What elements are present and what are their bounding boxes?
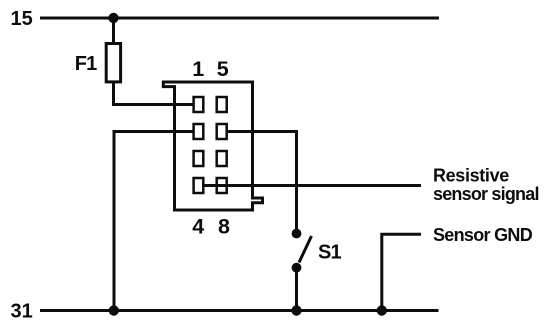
svg-text:Resistive: Resistive	[433, 165, 509, 185]
connector X1 shell outline	[163, 82, 262, 210]
node: junction of 15 rail and fuse branch	[108, 13, 118, 23]
connector pin 2 contact	[194, 124, 204, 139]
svg-text:31: 31	[11, 300, 33, 322]
svg-text:sensor signal: sensor signal	[433, 184, 539, 204]
wire: +15 rail (top)	[40, 17, 439, 20]
svg-text:S1: S1	[318, 242, 342, 264]
switch S1 upper contact	[292, 229, 302, 239]
node: junction 31 rail / S1 branch	[291, 305, 301, 315]
svg-text:5: 5	[217, 57, 229, 81]
connector pin 5 contact	[217, 97, 227, 112]
connector pin 3 contact	[194, 151, 204, 166]
switch S1 lower contact	[292, 263, 302, 273]
wire: resistive sensor signal from pins 4/8	[204, 184, 421, 187]
wire: 31 rail (bottom)	[40, 309, 439, 312]
wire: pin 6 to switch S1	[227, 132, 297, 232]
svg-text:15: 15	[11, 8, 33, 30]
wire: fuse F1 to connector pin 1	[114, 81, 196, 105]
switch S1 blade	[299, 236, 312, 263]
svg-text:1: 1	[192, 57, 204, 81]
connector pin 6 contact	[217, 124, 227, 139]
fuse F1	[106, 44, 120, 82]
svg-text:8: 8	[218, 215, 230, 239]
node: junction 31 rail / fuse branch	[109, 305, 119, 315]
connector pin 7 contact	[217, 151, 227, 166]
connector pin 8 contact	[217, 178, 227, 193]
connector pin 1 contact	[194, 97, 204, 112]
wire: S1 lower contact to 31 rail	[295, 268, 298, 308]
svg-text:Sensor GND: Sensor GND	[433, 225, 533, 245]
wire: connector pin 2 to 31 rail	[114, 132, 195, 309]
node: junction 31 rail / sensor GND branch	[377, 305, 387, 315]
svg-text:4: 4	[192, 215, 204, 239]
wire: sensor GND branch from 31 rail	[382, 234, 421, 308]
svg-text:F1: F1	[75, 53, 97, 75]
wire: 15 rail down to fuse F1	[112, 18, 115, 44]
connector pin 4 contact	[194, 178, 204, 193]
